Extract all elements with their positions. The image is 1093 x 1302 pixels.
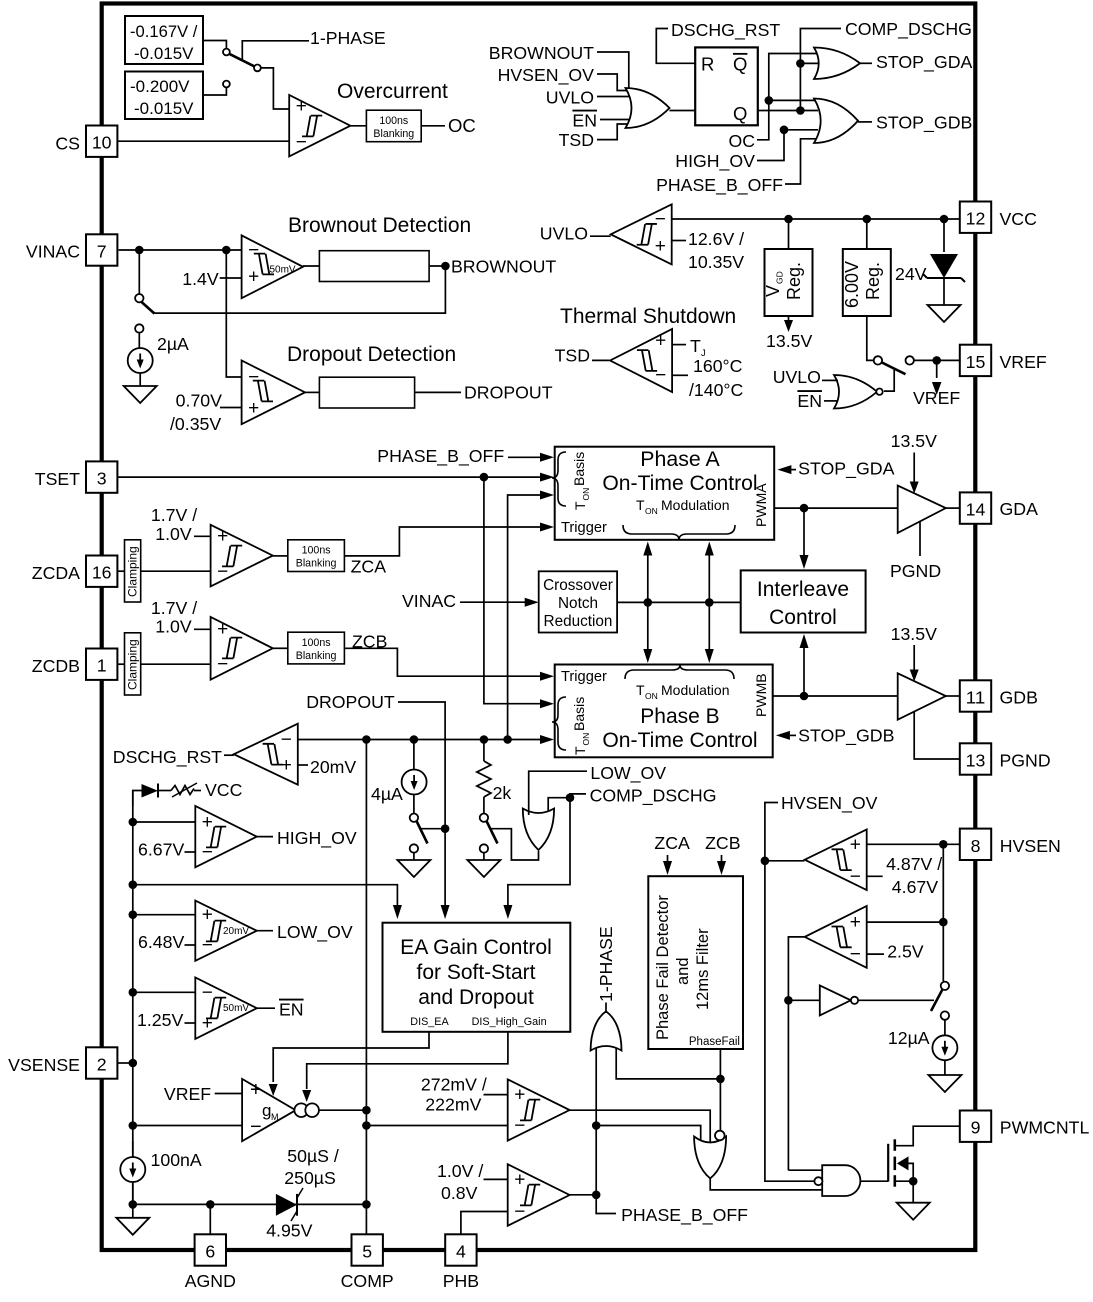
svg-text:−: − xyxy=(296,132,307,153)
comparator U-TSD xyxy=(610,329,672,392)
node HVSEN junction xyxy=(939,840,948,849)
comparator U-DO (dropout) xyxy=(242,361,305,425)
wire latch Q up to COMP_DSCHG xyxy=(800,29,841,111)
svg-text:13.5V: 13.5V xyxy=(891,431,937,451)
svg-text:+: + xyxy=(655,236,666,257)
svg-text:OC: OC xyxy=(729,131,756,151)
wire comp1 + to HVSEN pin xyxy=(867,843,960,845)
svg-text:EN: EN xyxy=(279,1000,304,1020)
wire 272mV comp output to OR-down xyxy=(570,1110,711,1145)
wire ZCB arrow xyxy=(721,855,723,862)
svg-text:DROPOUT: DROPOUT xyxy=(464,383,553,403)
current source 2uA xyxy=(128,348,153,373)
svg-text:2µA: 2µA xyxy=(157,334,189,354)
wire NOR output to switch blade xyxy=(884,369,894,391)
node Q/COMP_DSCHG junction xyxy=(796,106,805,115)
svg-text:VSENSE: VSENSE xyxy=(8,1055,80,1075)
svg-text:12: 12 xyxy=(966,209,986,229)
svg-text:16: 16 xyxy=(92,563,112,583)
wire TJ input xyxy=(672,344,686,346)
svg-text:Control: Control xyxy=(769,606,837,629)
block Interleave Control xyxy=(741,570,866,632)
svg-text:LOW_OV: LOW_OV xyxy=(590,763,666,784)
wire 1.0V to + (A) xyxy=(194,535,211,537)
svg-text:100ns: 100ns xyxy=(302,545,331,557)
svg-text:GD: GD xyxy=(775,271,785,284)
svg-text:+: + xyxy=(514,1085,525,1106)
svg-text:Clamping: Clamping xyxy=(126,639,140,690)
wire inverter output to switch blade xyxy=(858,999,934,1001)
node crossover A xyxy=(644,598,653,607)
wire comp2 output down to inverter xyxy=(788,937,804,1170)
svg-text:4µA: 4µA xyxy=(371,784,403,804)
svg-text:+: + xyxy=(514,1169,525,1190)
wire VINAC to switch xyxy=(138,250,140,294)
wire DIS_EA to gm xyxy=(273,1032,429,1082)
svg-text:6.00V: 6.00V xyxy=(842,261,862,308)
svg-text:100nA: 100nA xyxy=(151,1150,202,1170)
svg-text:Modulation: Modulation xyxy=(661,497,730,513)
node TSET branch xyxy=(480,473,489,482)
wire PHASE_B_OFF elbow xyxy=(596,1195,616,1214)
node rail gm tap xyxy=(129,1121,138,1130)
node VREF arrow tap xyxy=(932,356,941,365)
svg-text:0.70V: 0.70V xyxy=(176,391,222,411)
svg-text:1: 1 xyxy=(97,656,107,676)
svg-text:100ns: 100ns xyxy=(379,115,408,127)
svg-text:6: 6 xyxy=(205,1242,215,1262)
node rail HIGH_OV xyxy=(129,818,138,827)
svg-text:50µS /: 50µS / xyxy=(287,1146,339,1166)
svg-text:6.48V: 6.48V xyxy=(138,932,184,952)
node 4uA tap xyxy=(410,735,419,744)
svg-text:T: T xyxy=(636,497,645,513)
pin VREF 15 xyxy=(960,345,991,376)
wire 13.5V into GDB driver xyxy=(913,645,915,670)
comparator U-EN xyxy=(195,978,256,1039)
wire DROPOUT down to EA box xyxy=(398,702,445,905)
wire AGND row xyxy=(133,1203,367,1205)
svg-text:DSCHG_RST: DSCHG_RST xyxy=(113,747,222,768)
wire HIGH_OV output xyxy=(257,836,273,838)
inverter U-INV xyxy=(820,985,851,1015)
svg-text:+: + xyxy=(655,331,666,352)
svg-text:Reduction: Reduction xyxy=(544,613,613,630)
svg-text:20mV: 20mV xyxy=(310,757,356,777)
switch SW1 (1-PHASE threshold select) xyxy=(223,49,230,56)
svg-text:T: T xyxy=(690,336,701,356)
wire comparator to delay box2 xyxy=(305,391,319,393)
wire COMP to 272mV comp - xyxy=(366,1125,507,1127)
bubble on PhaseFail input xyxy=(715,1131,725,1141)
wire latch Q output to STOP_GDB gate xyxy=(758,110,818,112)
wire VINAC pin to comparator - xyxy=(119,249,242,251)
wire 160C input xyxy=(672,374,688,376)
svg-text:On-Time Control: On-Time Control xyxy=(602,472,757,495)
wire comparator to blanking box xyxy=(350,125,366,127)
wire VREF to gm + xyxy=(215,1093,242,1095)
ground (zener) xyxy=(928,305,961,322)
wire phase-b-off rail up to 1-PHASE gate xyxy=(595,1047,597,1195)
svg-text:−: − xyxy=(655,209,666,230)
wire VSENSE pin to rail xyxy=(117,1062,132,1064)
block Phase B On-Time Control xyxy=(555,665,773,758)
wire COMP_DSCHG down to EA xyxy=(508,798,570,905)
wire rail to gm - xyxy=(133,1125,242,1127)
svg-text:VREF: VREF xyxy=(164,1084,211,1104)
node crossover B xyxy=(705,598,714,607)
pin ZCDB 1 box xyxy=(86,649,117,680)
wire delay to DROPOUT label xyxy=(415,391,461,393)
svg-text:9: 9 xyxy=(971,1118,981,1138)
wire 6V reg down to VREF switch xyxy=(867,316,874,360)
drain wire to pin 9 xyxy=(895,1126,960,1146)
svg-text:DSCHG_RST: DSCHG_RST xyxy=(671,20,780,41)
svg-text:Phase A: Phase A xyxy=(640,448,719,471)
brace TON basis A xyxy=(552,452,566,506)
comparator U-OC (overcurrent) xyxy=(289,95,350,156)
ground (12uA) xyxy=(928,1075,961,1092)
svg-text:CS: CS xyxy=(55,134,80,154)
svg-text:−: − xyxy=(248,367,259,388)
svg-text:-0.015V: -0.015V xyxy=(134,44,194,63)
svg-text:4.67V: 4.67V xyxy=(892,877,938,897)
wire 2uA to ground xyxy=(139,373,141,386)
wire LOW_OV into OR gate xyxy=(529,771,587,815)
node to OR-down gate xyxy=(592,1121,601,1130)
svg-text:STOP_GDA: STOP_GDA xyxy=(798,459,895,480)
block 100ns Blanking A xyxy=(288,540,345,572)
wire COMP sense line to Phase B xyxy=(298,739,541,741)
ground (MOSFET) xyxy=(897,1203,930,1220)
svg-text:V: V xyxy=(763,285,783,297)
wire rail to HIGH_OV + xyxy=(133,821,196,823)
svg-text:Reg.: Reg. xyxy=(863,262,883,300)
OR gate U-DSCHGOR (pointing down) xyxy=(523,809,554,851)
node VGD reg tap xyxy=(784,215,793,224)
wire ZCDB pin to clamping B xyxy=(115,663,124,665)
svg-text:PHASE_B_OFF: PHASE_B_OFF xyxy=(656,175,783,196)
svg-text:14: 14 xyxy=(966,500,986,520)
svg-text:PhaseFail: PhaseFail xyxy=(689,1036,740,1048)
wire box1 to switch throw 1 xyxy=(203,41,226,49)
svg-text:8: 8 xyxy=(971,836,981,856)
pin GDA 14 xyxy=(960,492,991,523)
svg-text:−: − xyxy=(281,730,292,751)
wire BROWNOUT to OR gate xyxy=(597,52,629,95)
svg-text:1.0V: 1.0V xyxy=(155,617,192,637)
wire VGD reg to rail xyxy=(788,219,790,249)
wire VREF arrow xyxy=(936,360,938,378)
zener diode 24V xyxy=(943,219,945,252)
svg-text:PHASE_B_OFF: PHASE_B_OFF xyxy=(621,1205,748,1226)
svg-text:STOP_GDB: STOP_GDB xyxy=(876,113,972,134)
svg-text:50mV: 50mV xyxy=(270,265,296,276)
svg-text:BROWNOUT: BROWNOUT xyxy=(489,43,594,63)
svg-text:12ms Filter: 12ms Filter xyxy=(694,928,712,1010)
svg-text:Thermal Shutdown: Thermal Shutdown xyxy=(560,305,736,328)
svg-text:10.35V: 10.35V xyxy=(688,252,744,272)
svg-text:OC: OC xyxy=(448,115,476,136)
wire to inverter xyxy=(788,999,819,1001)
wire VGD reg to 13.5V arrow xyxy=(788,316,790,322)
comparator U-25V xyxy=(805,906,867,968)
switch SW-12uA xyxy=(941,982,949,990)
pin PGND 13 xyxy=(960,743,991,774)
svg-text:GDA: GDA xyxy=(1000,499,1039,519)
switch SW-4uA xyxy=(413,795,415,814)
NAND gate U-PWMC xyxy=(822,1165,860,1196)
svg-text:Overcurrent: Overcurrent xyxy=(337,80,448,103)
pin AGND 6 xyxy=(195,1234,226,1265)
svg-text:15: 15 xyxy=(966,352,986,372)
wire delay box to BROWNOUT label xyxy=(429,265,449,267)
OR gate U-STOPGDB xyxy=(814,99,858,144)
svg-text:+: + xyxy=(296,96,307,117)
wire HVSEN_OV down to NAND xyxy=(765,861,815,1181)
ground (2uA) xyxy=(124,386,157,403)
svg-text:EN: EN xyxy=(797,391,822,411)
svg-text:+: + xyxy=(217,619,228,640)
svg-text:10: 10 xyxy=(92,133,112,153)
svg-text:+: + xyxy=(250,1079,262,1101)
svg-text:Dropout Detection: Dropout Detection xyxy=(287,343,456,366)
svg-text:ZCDB: ZCDB xyxy=(32,656,80,676)
svg-text:T: T xyxy=(572,501,588,510)
svg-text:M: M xyxy=(271,1112,279,1122)
wire label to comparator apex xyxy=(224,754,234,756)
svg-text:-0.167V /: -0.167V / xyxy=(130,22,198,41)
svg-text:VINAC: VINAC xyxy=(402,591,456,611)
block 6.00V Reg xyxy=(843,249,891,316)
svg-text:and: and xyxy=(674,958,692,986)
svg-text:VREF: VREF xyxy=(1000,352,1047,372)
svg-text:+: + xyxy=(248,398,259,419)
pin TSET 3 box xyxy=(86,461,117,492)
svg-text:T: T xyxy=(572,746,588,755)
node Q to GDA-gate branch xyxy=(796,59,805,68)
node rail LOW_OV xyxy=(129,910,138,919)
svg-text:Clamping: Clamping xyxy=(126,546,140,597)
wire COMP_DSCHG into OR gate xyxy=(570,794,586,798)
wire EN to NOR xyxy=(824,400,838,402)
svg-text:−: − xyxy=(514,1116,525,1137)
wire phase link A (left) xyxy=(647,553,649,651)
wire NAND output to MOSFET gate xyxy=(860,1180,888,1182)
svg-text:STOP_GDB: STOP_GDB xyxy=(798,726,894,747)
wire VINAC branch to dropout comp xyxy=(226,250,241,377)
wire GDB driver to pin xyxy=(946,695,960,697)
comparator U-UVLO xyxy=(611,204,672,264)
svg-text:Phase Fail Detector: Phase Fail Detector xyxy=(654,895,672,1040)
svg-text:272mV /: 272mV / xyxy=(421,1075,487,1095)
svg-text:TSD: TSD xyxy=(559,130,594,150)
svg-text:Basis: Basis xyxy=(571,697,587,731)
svg-text:ZCB: ZCB xyxy=(705,833,740,853)
svg-text:HVSEN_OV: HVSEN_OV xyxy=(498,65,595,86)
node inverter tap xyxy=(784,996,793,1005)
pin GDB 11 xyxy=(960,680,991,711)
wire EN output xyxy=(257,1007,275,1009)
wire to ground (4uA) xyxy=(413,853,415,860)
OR gate U-1PHASE (pointing up) xyxy=(591,1011,622,1050)
wire PWMB output xyxy=(773,695,898,697)
wire GDB driver to PGND pin xyxy=(914,712,960,760)
svg-text:PWMA: PWMA xyxy=(753,483,769,527)
wire UVLO comp input 12.6V xyxy=(672,240,686,242)
wire PWMA output xyxy=(774,507,898,509)
brace TON basis B xyxy=(552,697,566,750)
svg-text:Q: Q xyxy=(733,103,747,124)
svg-text:PGND: PGND xyxy=(890,561,941,581)
node PhaseFail branch xyxy=(716,1075,725,1084)
wire UVLO label to comparator xyxy=(590,235,611,237)
svg-text:ON: ON xyxy=(645,506,658,516)
wire 272mV to + xyxy=(484,1094,508,1096)
svg-text:4: 4 xyxy=(456,1242,466,1262)
svg-text:PGND: PGND xyxy=(1000,751,1051,771)
svg-text:−: − xyxy=(202,982,213,1003)
wire blanking B to Phase B trigger xyxy=(344,648,541,676)
svg-text:VCC: VCC xyxy=(1000,209,1038,229)
wire PhaseFail down xyxy=(719,1049,721,1131)
OR gate U-PBOFF (pointing down) xyxy=(694,1137,726,1179)
wire box2 to switch throw 2 xyxy=(203,88,226,96)
wire blanking A to Phase A trigger xyxy=(344,527,541,556)
block dropout delay xyxy=(319,377,414,408)
wire to 2.5V comp + xyxy=(867,921,944,923)
bubble on HVSEN_OV input xyxy=(814,1177,822,1185)
wire HVSEN rail down xyxy=(942,844,944,981)
svg-text:PHASE_B_OFF: PHASE_B_OFF xyxy=(377,446,504,467)
block Clamping A xyxy=(125,540,141,602)
svg-text:11: 11 xyxy=(966,688,986,708)
svg-text:Notch: Notch xyxy=(558,595,598,612)
svg-text:EN: EN xyxy=(572,111,597,131)
wire rail to EA box xyxy=(133,885,398,905)
svg-text:ON: ON xyxy=(581,488,591,501)
wire rail to LOW_OV + xyxy=(133,914,196,916)
svg-text:0.8V: 0.8V xyxy=(441,1183,478,1203)
node COMP 272mV tap xyxy=(362,1121,371,1130)
svg-text:2.5V: 2.5V xyxy=(887,942,924,962)
svg-text:VREF: VREF xyxy=(913,388,960,408)
overbrace TON modulation B xyxy=(625,665,734,679)
comparator U-PHB xyxy=(508,1164,570,1226)
svg-text:Brownout Detection: Brownout Detection xyxy=(288,214,471,237)
wire AGND pin xyxy=(209,1204,211,1234)
svg-text:222mV: 222mV xyxy=(425,1095,481,1115)
svg-text:Blanking: Blanking xyxy=(296,650,337,662)
wire 1.0V to + (B) xyxy=(194,628,211,630)
wire HIGH_OV to STOP_GDB gate xyxy=(757,130,818,161)
block 100ns Blanking xyxy=(366,110,421,142)
comparator U-LOWOV xyxy=(195,901,256,961)
wire 20mV to + input xyxy=(298,764,308,766)
svg-text:GDB: GDB xyxy=(1000,688,1038,708)
wire TSD to OR gate xyxy=(597,124,629,140)
svg-text:UVLO: UVLO xyxy=(540,224,588,244)
current source 4uA xyxy=(413,740,415,770)
svg-text:1.0V /: 1.0V / xyxy=(437,1161,483,1181)
wire clamping to comparator - xyxy=(141,570,211,572)
svg-text:1-PHASE: 1-PHASE xyxy=(310,28,386,48)
body diode arrow xyxy=(897,1156,909,1170)
wire 1.0V comp output xyxy=(570,1194,597,1196)
wire VSENSE rail xyxy=(132,791,134,1205)
wire PWMB to interleave xyxy=(803,645,805,696)
wire zener to ground xyxy=(943,278,945,305)
wire OC label up to STOP_GDA gate top input xyxy=(757,54,818,140)
svg-text:+: + xyxy=(202,812,213,833)
svg-text:−: − xyxy=(655,365,666,386)
svg-text:BROWNOUT: BROWNOUT xyxy=(451,257,556,277)
wire comp1 output xyxy=(765,860,805,862)
current source 100nA xyxy=(132,1141,134,1157)
svg-text:Interleave: Interleave xyxy=(757,578,849,601)
wire EN to OR gate xyxy=(600,119,630,121)
chip boundary border xyxy=(102,4,976,1251)
wire 1.0V to + xyxy=(484,1178,508,1180)
svg-text:DIS_EA: DIS_EA xyxy=(410,1016,449,1028)
driver U-GDB xyxy=(898,673,946,719)
wire VINAC to crossover box xyxy=(460,601,526,603)
svg-text:Basis: Basis xyxy=(571,452,587,486)
wire switch to 12uA xyxy=(944,1020,946,1035)
svg-text:PHB: PHB xyxy=(443,1271,479,1291)
wire 1-PHASE label to switch blade xyxy=(242,41,309,61)
svg-text:1.0V: 1.0V xyxy=(155,524,192,544)
svg-text:13: 13 xyxy=(966,751,986,771)
wire PWMA to interleave xyxy=(803,508,805,557)
svg-text:+: + xyxy=(248,267,259,288)
svg-text:−: − xyxy=(250,1116,262,1138)
wire comp to blanking A xyxy=(273,555,288,557)
svg-text:COMP_DSCHG: COMP_DSCHG xyxy=(845,19,972,40)
wire TSET to Phase A xyxy=(117,476,541,478)
svg-text:COMP: COMP xyxy=(341,1271,394,1291)
wire switch pole to comparator + input xyxy=(261,68,289,109)
current source 12uA xyxy=(932,1035,957,1060)
svg-text:HIGH_OV: HIGH_OV xyxy=(675,151,755,172)
switch SW-2uA xyxy=(135,294,143,302)
wire switch to 2uA source xyxy=(138,333,140,348)
wire crossover to interleave xyxy=(617,601,741,603)
wire TSET down to Phase B xyxy=(484,477,541,704)
svg-text:HVSEN_OV: HVSEN_OV xyxy=(781,793,878,814)
wire Q branch to STOP_GDA gate lower input xyxy=(800,62,818,64)
svg-text:3: 3 xyxy=(97,469,107,489)
wire 1.25V to + xyxy=(185,1022,196,1024)
svg-text:Q: Q xyxy=(733,54,747,75)
svg-text:13.5V: 13.5V xyxy=(766,331,812,351)
node zener tap xyxy=(940,215,949,224)
node HIGH_OV corner xyxy=(780,126,789,135)
svg-text:+: + xyxy=(850,834,861,855)
wire mirror to COMP xyxy=(319,1109,367,1111)
node 2.5V comp tap xyxy=(939,918,948,927)
wire 13.5V into GDA driver xyxy=(913,453,915,483)
svg-text:ON: ON xyxy=(581,733,591,746)
node PhaseA TonBasis tap xyxy=(503,735,512,744)
SR latch U-LATCH xyxy=(695,47,758,125)
svg-text:-0.015V: -0.015V xyxy=(134,99,194,118)
wire OC branch to STOP_GDB top input xyxy=(769,99,818,101)
pin VINAC 7 box xyxy=(86,234,117,265)
wire blanking to OC label xyxy=(421,125,445,127)
wire to OR-down left input xyxy=(596,1126,701,1144)
svg-text:−: − xyxy=(248,240,259,261)
